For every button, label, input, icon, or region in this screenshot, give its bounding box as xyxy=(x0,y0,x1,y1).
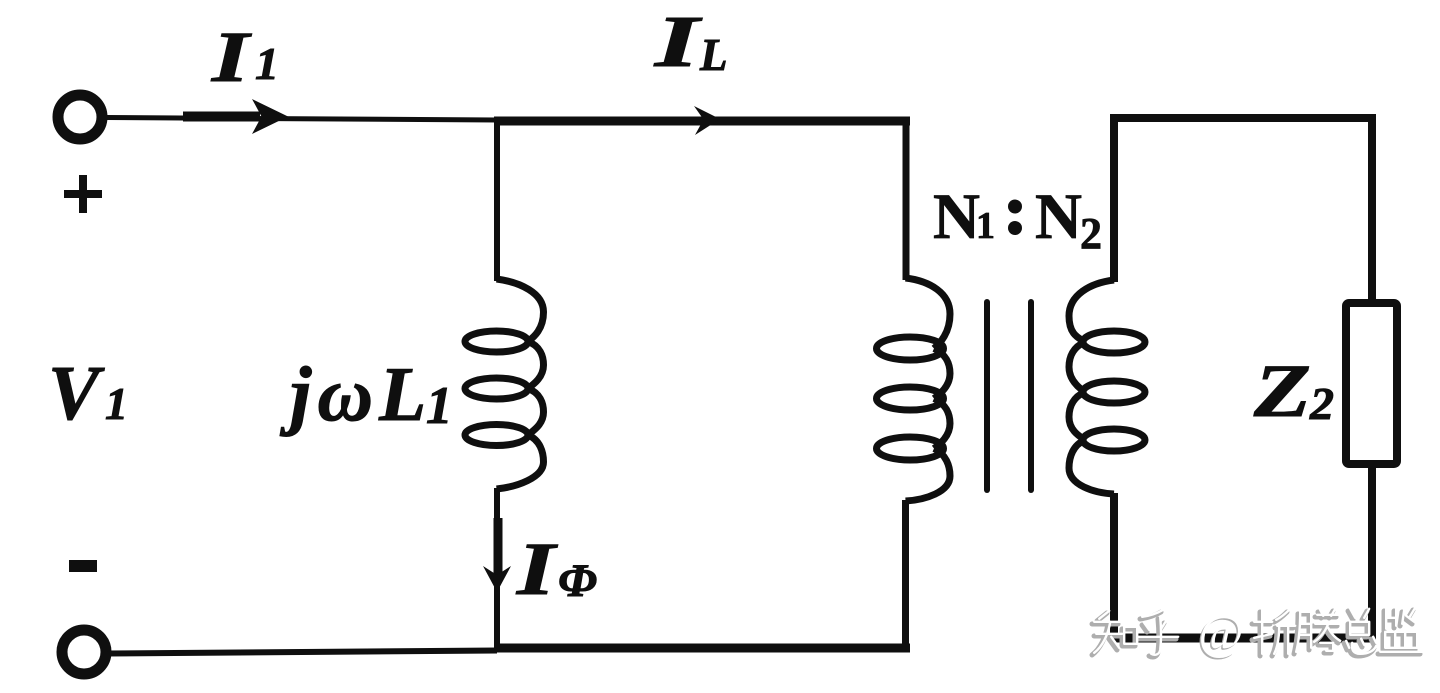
svg-text:I: I xyxy=(653,1,703,82)
svg-text:1: 1 xyxy=(105,378,128,429)
svg-text:N: N xyxy=(1035,181,1082,253)
svg-text:@: @ xyxy=(1199,605,1244,660)
svg-text:N: N xyxy=(933,181,980,253)
svg-text:I: I xyxy=(516,528,559,611)
svg-text:1: 1 xyxy=(976,205,995,247)
svg-text:2: 2 xyxy=(1080,209,1102,258)
svg-text:1: 1 xyxy=(426,377,453,435)
svg-text:jωL: jωL xyxy=(279,351,432,437)
svg-text:Z: Z xyxy=(1253,350,1311,433)
svg-text:1: 1 xyxy=(255,38,279,89)
svg-text:I: I xyxy=(211,17,253,97)
svg-text:Φ: Φ xyxy=(558,555,597,607)
svg-text:L: L xyxy=(699,30,728,80)
svg-text:V: V xyxy=(48,350,105,436)
svg-text:2: 2 xyxy=(1309,378,1334,429)
